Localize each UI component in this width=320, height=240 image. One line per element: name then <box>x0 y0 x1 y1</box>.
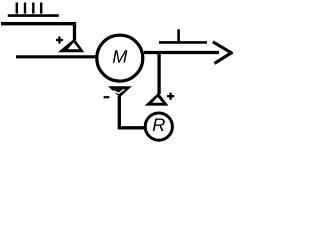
wire: brush to rheostat <box>119 96 144 128</box>
label - (brush polarity) <box>104 96 110 98</box>
label M <box>113 50 128 63</box>
wire: supply line into motor <box>16 55 96 58</box>
label R <box>153 118 165 131</box>
pantograph contact (+ collector) <box>58 39 84 53</box>
motor M <box>97 35 143 81</box>
brush contact (-) below motor <box>108 86 132 97</box>
rheostat R <box>145 113 172 140</box>
label + (rheostat contact polarity) <box>167 93 174 100</box>
rail marker tick <box>177 29 180 41</box>
wire: rail / return line from motor <box>144 51 219 54</box>
label + (pantograph polarity) <box>56 37 63 44</box>
arrowhead (direction of travel) <box>213 42 232 64</box>
contact network hatching (overhead line ticks) <box>17 3 41 14</box>
wire: drop from rail line to rheostat contact <box>157 53 160 95</box>
wire: feeder from contact network to pantograph <box>1 24 75 40</box>
contact network baseline <box>8 14 59 17</box>
contact shoe (+) at rheostat <box>145 93 169 106</box>
